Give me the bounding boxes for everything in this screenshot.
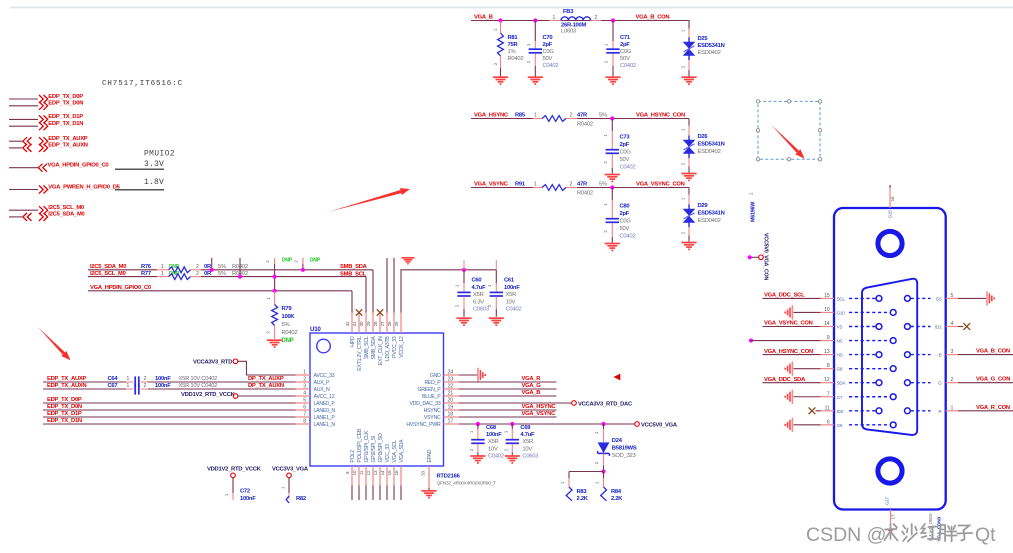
- U10 pin 27 LDO_A3TB: [380, 313, 391, 362]
- connector pin 10 G10: [821, 307, 897, 316]
- svg-text:R0402: R0402: [577, 122, 593, 128]
- wire VGA_VSYNC: [471, 187, 689, 189]
- power port VCC5V0_VGA: [635, 422, 678, 429]
- connector pin 14 VS: [821, 321, 882, 330]
- svg-text:5%: 5%: [218, 264, 226, 270]
- svg-text:EDP_TX_D1N: EDP_TX_D1N: [48, 121, 83, 127]
- U10 no-connect X on pin 31: [356, 309, 362, 315]
- net label I2C5_SCL_M0: [90, 271, 126, 277]
- annotation arrow left: [38, 327, 71, 360]
- svg-text:DNP: DNP: [282, 258, 293, 264]
- schottky diode D24 B5819WS: [594, 424, 637, 472]
- svg-text:100nF: 100nF: [155, 376, 171, 382]
- svg-text:SMB_SCL: SMB_SCL: [364, 336, 370, 359]
- wire NC pin9: [749, 338, 821, 342]
- svg-text:HSYNC: HSYNC: [424, 408, 441, 414]
- junction at C60: [462, 268, 466, 272]
- net label EDP_TX_D0P: [47, 397, 82, 403]
- svg-text:17: 17: [890, 514, 895, 519]
- svg-text:VGA_B: VGA_B: [474, 15, 493, 21]
- U10 pin 16 VGA_SDA: [394, 439, 405, 500]
- net label VGA_DDC_SDA: [764, 377, 806, 383]
- wire I2C5_SCL_M0 to R77: [88, 276, 169, 278]
- wire VGA_B: [459, 395, 557, 397]
- svg-text:DP_TX_AUXP: DP_TX_AUXP: [248, 376, 284, 382]
- svg-text:ID1: ID1: [935, 325, 942, 330]
- svg-text:I2C5_SDA_M0: I2C5_SDA_M0: [48, 212, 84, 218]
- junction below D24: [601, 469, 605, 473]
- junction SDA x303: [301, 268, 305, 272]
- net label VGA_B: [522, 390, 541, 396]
- svg-text:HVSYNC_PWR: HVSYNC_PWR: [406, 422, 441, 428]
- wire VGA_B_CON: [958, 354, 1013, 356]
- svg-text:D29: D29: [698, 203, 709, 209]
- svg-text:ID0: ID0: [837, 409, 844, 414]
- net label EDP_TX_D1P: [47, 411, 82, 417]
- IC U10 RTD2166 body: [310, 326, 444, 466]
- wire VGA_VSYNC_CON to connector: [763, 326, 821, 328]
- ground below C70: [528, 77, 543, 84]
- connector pin 3 B: [905, 349, 959, 358]
- svg-text:27: 27: [380, 321, 385, 326]
- svg-text:ESD5341N: ESD5341N: [698, 43, 725, 49]
- svg-text:31: 31: [352, 321, 357, 326]
- svg-text:VGA_G: VGA_G: [522, 383, 542, 389]
- svg-text:VCCA3V3_RTD: VCCA3V3_RTD: [193, 360, 232, 366]
- wire VGA_R_CON: [958, 410, 1013, 412]
- svg-text:VCC_33: VCC_33: [385, 444, 391, 462]
- U10 pin 24 GND: [430, 370, 459, 380]
- port EDP_TX_D0N: [9, 101, 83, 110]
- connector pin 5 G5: [905, 293, 959, 302]
- svg-text:I2C5_SDA_M0: I2C5_SDA_M0: [90, 264, 126, 270]
- junction at R79: [273, 289, 277, 293]
- ground below C68: [470, 456, 485, 463]
- U10 pin 12 GPI2/SPI_SI: [366, 436, 377, 500]
- svg-text:AUX_P: AUX_P: [314, 380, 331, 386]
- capacitor C60 4.7uF: [455, 260, 489, 317]
- capacitor C72 100nF: [224, 478, 256, 502]
- net label VGA_HSYNC_CON: [764, 349, 813, 355]
- U10 pin 5 LANE0_P: [296, 398, 336, 408]
- wire EDP_TX_D1P: [43, 416, 296, 418]
- svg-text:C0G: C0G: [620, 219, 632, 225]
- svg-text:EPAD: EPAD: [427, 449, 433, 462]
- capacitor C61 100nF: [487, 260, 521, 317]
- svg-text:G8: G8: [837, 367, 843, 372]
- watermark CSDN: [806, 524, 996, 546]
- wire DP_TX_AUXP: [141, 381, 296, 383]
- svg-text:VGA_HSYNC_CON: VGA_HSYNC_CON: [636, 113, 685, 119]
- net label DP_TX_AUXN: [248, 383, 284, 389]
- vertical text M6196W: [749, 192, 757, 222]
- svg-text:R91: R91: [515, 182, 526, 188]
- U10 pin 18 VSYNC: [424, 412, 459, 422]
- wire GND pin24: [459, 374, 478, 376]
- svg-text:C69: C69: [520, 425, 531, 431]
- junction VGA_HSYNC at C73: [610, 116, 614, 120]
- U10 pin 23 RED_P: [424, 377, 459, 387]
- U10 pin 32 HPD: [345, 313, 356, 347]
- svg-text:C71: C71: [620, 35, 631, 41]
- stub DNP cap pin at x303: [294, 258, 321, 270]
- svg-text:3: 3: [303, 384, 306, 390]
- svg-text:EDP_TX_AUXN: EDP_TX_AUXN: [47, 383, 87, 389]
- svg-text:DNP: DNP: [310, 258, 321, 264]
- svg-text:VGA_VSYNC: VGA_VSYNC: [474, 182, 509, 188]
- svg-text:R85: R85: [515, 113, 526, 119]
- title text CH7517,IT6516:C: [102, 80, 183, 88]
- svg-text:PVCC_33: PVCC_33: [392, 336, 398, 358]
- wire VGA_HSYNC from chip: [459, 409, 557, 411]
- svg-text:SDA: SDA: [837, 381, 847, 386]
- svg-text:22: 22: [448, 384, 454, 390]
- svg-text:R77: R77: [141, 271, 151, 277]
- U10 part name RTD2166: [437, 474, 497, 487]
- ground below D29: [681, 243, 696, 250]
- svg-text:VSYNC: VSYNC: [424, 415, 441, 421]
- floating ground near pin26: [402, 258, 415, 264]
- svg-text:4.7uF: 4.7uF: [520, 432, 535, 438]
- no-connect X at pin4: [958, 323, 970, 330]
- svg-text:EDP_TX_AUXP: EDP_TX_AUXP: [48, 136, 88, 142]
- svg-text:29: 29: [366, 321, 371, 326]
- U10 pin 25 VCCK_12: [394, 313, 405, 358]
- connector pin 8 G8: [821, 363, 897, 372]
- port EDP_TX_AUXN: [9, 143, 88, 152]
- ground below R79: [267, 340, 282, 347]
- svg-text:VGA_B: VGA_B: [522, 390, 541, 396]
- svg-text:C70: C70: [543, 35, 553, 41]
- U10 pin 20 VDD_DAC_33: [410, 398, 459, 408]
- svg-text:B: B: [939, 353, 942, 358]
- svg-text:C0G: C0G: [620, 150, 632, 156]
- connector pin 16 shield: [888, 185, 895, 218]
- svg-text:23: 23: [448, 377, 454, 383]
- svg-text:16: 16: [394, 470, 399, 475]
- svg-text:VCCA3V3_RTD_DAC: VCCA3V3_RTD_DAC: [578, 401, 633, 407]
- stub DNP cap pin at x275: [265, 258, 293, 291]
- svg-text:X5R: X5R: [522, 439, 533, 445]
- svg-text:SOD_323: SOD_323: [612, 453, 636, 459]
- wire VGA_HPDIN_GPIO0_C0: [88, 291, 352, 313]
- ground below EPAD: [421, 491, 436, 498]
- svg-text:C0G: C0G: [543, 49, 555, 55]
- resistor R81 75R: [493, 21, 523, 77]
- connector pin 17 shield: [885, 496, 896, 535]
- svg-text:R83: R83: [577, 489, 588, 495]
- svg-text:EDP_TX_D0N: EDP_TX_D0N: [48, 101, 83, 107]
- svg-text:HPD: HPD: [350, 336, 356, 347]
- U10 pin 19 HSYNC: [424, 405, 459, 415]
- svg-text:SCL: SCL: [837, 296, 846, 301]
- svg-text:VCC3V3_VGA: VCC3V3_VGA: [272, 467, 309, 473]
- net label VGA_HSYNC: [474, 113, 509, 119]
- svg-text:VGA_HPDIN_GPIO0_C0: VGA_HPDIN_GPIO0_C0: [90, 285, 151, 291]
- svg-text:POL2: POL2: [350, 450, 356, 463]
- U10 pin 22 GREEN_P: [417, 384, 459, 394]
- svg-text:D26: D26: [698, 134, 709, 140]
- U10 pin 7 LANE1_P: [296, 412, 336, 422]
- junction on VGA_B at C70: [533, 18, 537, 22]
- svg-text:C80: C80: [620, 204, 630, 210]
- wire VDD1V2_RTD_VCCK to pin4: [238, 395, 296, 397]
- resistor R76 0R: [141, 264, 248, 273]
- ESD diode D29 ESD5341N: [681, 188, 725, 242]
- wire VGA_VSYNC from chip: [459, 416, 557, 418]
- svg-text:100K: 100K: [282, 314, 296, 320]
- svg-text:50V: 50V: [543, 56, 553, 62]
- selection box with arrow: [756, 100, 821, 161]
- wire SMB_SDA: [191, 270, 374, 313]
- svg-text:25: 25: [394, 321, 399, 326]
- connector pin 11 ID0: [821, 405, 882, 414]
- svg-text:LANE0_P: LANE0_P: [314, 401, 336, 407]
- ground at connector pin8: [785, 361, 820, 375]
- U10 pin 14 VCC_33: [380, 444, 391, 500]
- svg-text:33: 33: [421, 471, 426, 476]
- ESD diode D26 ESD5341N: [681, 119, 725, 173]
- svg-text:VGA_HSYNC: VGA_HSYNC: [474, 113, 509, 119]
- U10 pin 10 POL1/SPI_CEB: [352, 428, 363, 500]
- svg-text:47R: 47R: [577, 182, 588, 188]
- no-connect X at pin11: [809, 407, 821, 414]
- svg-text:1: 1: [303, 370, 306, 376]
- port I2C5_SCL_M0: [9, 205, 84, 214]
- port VGA_PWREN_H_GPIO0_D5: [9, 184, 121, 193]
- wire VGA_G_CON: [958, 382, 1013, 384]
- svg-text:ESD5341N: ESD5341N: [698, 142, 725, 148]
- net label EDP_TX_D1N: [47, 418, 82, 424]
- svg-text:2pF: 2pF: [543, 42, 553, 48]
- svg-text:24: 24: [448, 370, 454, 376]
- svg-text:VCC5V0_VGA: VCC5V0_VGA: [641, 423, 678, 429]
- wire EDP_TX_D0N: [43, 409, 296, 411]
- port EDP_TX_AUXP: [9, 136, 88, 145]
- svg-text:ESD0402: ESD0402: [698, 218, 721, 224]
- wire VCCA3V3_RTD_DAC pin20: [459, 402, 572, 404]
- wire EDP_TX_D0P: [43, 402, 296, 404]
- svg-text:SMB_SCL: SMB_SCL: [340, 271, 367, 277]
- svg-text:FB3: FB3: [563, 9, 574, 15]
- svg-text:VCCK_12: VCCK_12: [399, 336, 405, 358]
- wire PVCC_33 riser pin27: [386, 258, 388, 313]
- svg-text:LANE1_P: LANE1_P: [314, 415, 336, 421]
- svg-text:26: 26: [387, 321, 392, 326]
- junction SCL x275: [273, 275, 277, 279]
- capacitor C73 2pF: [603, 119, 635, 174]
- svg-text:R76: R76: [141, 264, 152, 270]
- svg-text:X5R: X5R: [506, 292, 517, 298]
- U10 no-connect X on pin 28: [377, 309, 383, 315]
- resistor R79 100K DNP: [266, 291, 298, 344]
- svg-text:CSDN @: CSDN @: [806, 524, 886, 546]
- svg-text:VGA_R_CON: VGA_R_CON: [976, 405, 1010, 411]
- U10 pin 11 GPI1/SPI_CLK: [359, 430, 370, 500]
- svg-text:AUX_N: AUX_N: [314, 387, 331, 393]
- svg-text:VGA_HSYNC: VGA_HSYNC: [522, 404, 557, 410]
- svg-text:VGA_SDA: VGA_SDA: [399, 439, 405, 463]
- U10 pin 30 SMB_SCL: [359, 313, 370, 359]
- U10 pin 9 POL2: [345, 450, 356, 500]
- svg-text:2pF: 2pF: [620, 211, 630, 217]
- svg-text:D25: D25: [698, 36, 709, 42]
- svg-text:QFN32_4R00X4R00X0R90_T: QFN32_4R00X4R00X0R90_T: [437, 481, 497, 487]
- U10 pin 6 LANE0_N: [296, 405, 336, 415]
- net label VGA_VSYNC: [474, 182, 509, 188]
- U10 pin 26 PVCC_33: [387, 313, 398, 358]
- wire VGA_B_CON drop to D25: [688, 20, 690, 29]
- resistor R84 2.2K: [595, 472, 624, 503]
- net label EDP_TX_AUXP: [47, 376, 87, 382]
- svg-text:R0402: R0402: [508, 56, 524, 62]
- U10 pin 29 SMB_SDA: [366, 313, 377, 360]
- ground below C60: [456, 318, 471, 325]
- svg-text:2.2K: 2.2K: [577, 496, 589, 502]
- svg-text:X5R 10V C0402: X5R 10V C0402: [179, 383, 218, 389]
- svg-text:GPI1/SPI_CLK: GPI1/SPI_CLK: [364, 430, 370, 462]
- capacitor C69 4.7uF: [503, 424, 538, 459]
- svg-text:VDD_DAC_33: VDD_DAC_33: [410, 401, 441, 407]
- svg-text:G6: G6: [837, 423, 843, 428]
- svg-text:G16: G16: [888, 210, 893, 219]
- power rail PMUIO2 3.3V: [115, 151, 175, 170]
- net label I2C5_SDA_M0: [90, 264, 126, 270]
- svg-text:EDP_TX_D0P: EDP_TX_D0P: [47, 397, 82, 403]
- wire DP_TX_AUXN: [141, 388, 296, 390]
- wire EDP_TX_D1N: [43, 423, 296, 425]
- svg-text:X5R 10V C0402: X5R 10V C0402: [179, 376, 218, 382]
- ferrite bead FB3 26R-100M: [553, 9, 598, 35]
- svg-text:ESD0402: ESD0402: [698, 50, 721, 56]
- svg-text:C0G: C0G: [620, 49, 632, 55]
- capacitor C70 2pF: [526, 21, 558, 77]
- net label VGA_R: [522, 376, 542, 382]
- junction SDA x212: [210, 268, 214, 272]
- U10 pin 4 AVCC_12: [296, 391, 335, 401]
- svg-text:C0402: C0402: [620, 165, 636, 171]
- svg-text:R82: R82: [296, 496, 306, 502]
- wire VGA_HSYNC_CON to connector: [763, 354, 821, 356]
- ground at connector pin7: [785, 390, 820, 404]
- svg-text:L0603: L0603: [561, 29, 576, 35]
- capacitor C67 100nF series: [108, 383, 218, 394]
- svg-text:C0402: C0402: [506, 307, 522, 313]
- port EDP_TX_D1P: [9, 114, 83, 123]
- svg-text:NC: NC: [837, 339, 844, 344]
- U10 pin 28 EXT_CLK_IN: [373, 313, 384, 366]
- stub DNP cap pin at x240: [239, 258, 241, 277]
- svg-text:C60: C60: [472, 278, 482, 284]
- svg-text:AVCC_12: AVCC_12: [314, 394, 335, 400]
- svg-text:50V: 50V: [620, 157, 630, 163]
- connector pin 4 ID1: [905, 321, 959, 330]
- svg-text:2pF: 2pF: [620, 142, 630, 148]
- svg-text:DNP: DNP: [282, 338, 294, 344]
- wire VCC5V0_VGA pin17: [459, 423, 635, 425]
- U10 pin 8 LANE1_N: [296, 419, 336, 429]
- net label SMB_SDA: [340, 264, 368, 270]
- U10 EPAD pin 33: [421, 449, 434, 490]
- svg-text:5: 5: [303, 398, 306, 404]
- svg-text:G7: G7: [837, 395, 843, 400]
- svg-text:R0402: R0402: [577, 191, 593, 197]
- svg-text:1%: 1%: [508, 49, 516, 55]
- ground below C73: [605, 175, 620, 182]
- power port VCC5V0_VGA_CON: [748, 233, 769, 280]
- U10 pin 15 VGA_SCL: [387, 440, 398, 500]
- svg-text:I2C5_SCL_M0: I2C5_SCL_M0: [48, 205, 84, 211]
- net label VGA_B_CON: [976, 349, 1010, 355]
- ground at connector pin5: [987, 291, 994, 305]
- svg-text:C64: C64: [108, 376, 119, 382]
- svg-text:VGA_VSYNC: VGA_VSYNC: [522, 411, 557, 417]
- junction VCC5V0 at C68: [476, 422, 480, 426]
- wire SMB_SCL: [191, 277, 367, 313]
- svg-text:G10: G10: [837, 310, 846, 315]
- svg-text:GREEN_P: GREEN_P: [417, 387, 441, 393]
- junction VGA_VSYNC at C80: [610, 185, 614, 189]
- svg-text:100nF: 100nF: [486, 432, 502, 438]
- port EDP_TX_D0P: [9, 94, 83, 103]
- svg-text:4: 4: [303, 391, 306, 397]
- annotation arrow middle: [328, 188, 410, 212]
- svg-text:VGA_B_CON: VGA_B_CON: [636, 15, 670, 21]
- svg-text:DP_TX_AUXN: DP_TX_AUXN: [248, 383, 284, 389]
- connector pin 1 R: [905, 405, 959, 414]
- svg-text:CH7517,IT6516:C: CH7517,IT6516:C: [102, 80, 183, 88]
- U10 pin 17 HVSYNC_PWR: [406, 419, 459, 429]
- svg-text:13: 13: [373, 470, 378, 475]
- svg-text:RTD2166: RTD2166: [437, 474, 461, 480]
- svg-text:3.3V: 3.3V: [144, 160, 164, 169]
- svg-text:R81: R81: [508, 35, 519, 41]
- net label VGA_VSYNC at chip: [522, 411, 557, 417]
- wire VGA_R: [459, 381, 557, 383]
- svg-text:EXT1.2V_CTRL: EXT1.2V_CTRL: [357, 336, 363, 371]
- ground below C69: [505, 456, 520, 463]
- svg-text:10V: 10V: [522, 446, 532, 452]
- resistor R77 0R: [141, 271, 248, 279]
- svg-text:ESD5341N: ESD5341N: [698, 211, 725, 217]
- port EDP_TX_D1N: [9, 121, 83, 130]
- ground at connector pin6: [785, 418, 820, 432]
- svg-text:C73: C73: [620, 135, 631, 141]
- svg-text:G: G: [938, 381, 942, 386]
- svg-text:C0402: C0402: [543, 63, 559, 69]
- svg-text:VGA_VSYNC_CON: VGA_VSYNC_CON: [636, 182, 685, 188]
- power port VCC3V3_VGA: [272, 467, 309, 478]
- net label VGA_B: [474, 15, 493, 21]
- svg-text:2: 2: [303, 377, 306, 383]
- svg-text:100nF: 100nF: [155, 383, 171, 389]
- svg-text:R79: R79: [282, 306, 293, 312]
- svg-text:GND: GND: [430, 373, 441, 379]
- svg-text:19: 19: [448, 405, 454, 411]
- junction on VGA_B at R81: [498, 18, 502, 22]
- wire VCCA3V3_RTD to pin1: [238, 361, 296, 375]
- svg-text:100nF: 100nF: [240, 496, 256, 502]
- svg-text:X5R: X5R: [473, 292, 484, 298]
- red annotation triangle: [614, 374, 621, 381]
- wire riser pin26: [393, 258, 395, 313]
- net label VGA_HPDIN_GPIO0_C0: [90, 285, 151, 291]
- power port VDD1V2_RTD_VCCK: [181, 392, 238, 399]
- ground below C80: [605, 244, 620, 251]
- U10 pin 2 AUX_P: [296, 377, 331, 387]
- svg-text:Qt: Qt: [975, 524, 996, 546]
- svg-text:C72: C72: [240, 489, 250, 495]
